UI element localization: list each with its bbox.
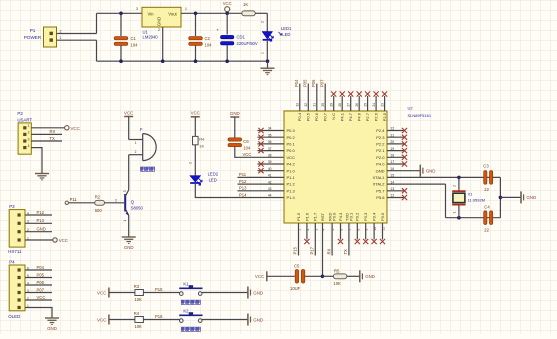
no-connect X pin 12	[402, 195, 407, 200]
power port GND (K1 row)	[248, 287, 263, 299]
svg-text:104: 104	[205, 43, 213, 48]
svg-text:C4: C4	[484, 204, 490, 209]
power port VCC (circle) at P2 pin1	[65, 126, 80, 131]
power port GND (pin16)	[420, 165, 435, 177]
switch K2 (push button)	[179, 308, 202, 322]
svg-text:28: 28	[338, 103, 342, 107]
pin 27 P4.7	[347, 103, 354, 121]
wire stub pin 29	[333, 96, 335, 111]
svg-text:VCC: VCC	[71, 126, 80, 131]
svg-text:2: 2	[188, 162, 192, 164]
wire R2 to Q base	[105, 202, 126, 204]
svg-text:P13: P13	[37, 218, 45, 223]
pin 40 P1.0	[268, 167, 296, 173]
label R4 1K	[199, 137, 205, 149]
svg-text:P07: P07	[37, 287, 45, 292]
svg-text:3: 3	[136, 7, 138, 11]
connector P3 HX711	[8, 204, 29, 254]
svg-text:R5: R5	[334, 269, 340, 274]
svg-text:GND: GND	[526, 195, 536, 200]
junction RST node	[321, 275, 325, 279]
wire stub bottom pin	[365, 223, 367, 240]
svg-text:22: 22	[484, 228, 489, 233]
wire stub pin 20	[387, 143, 404, 145]
no-connect X pin 40	[258, 168, 263, 173]
svg-text:33: 33	[296, 103, 300, 107]
junction CD1 bottom	[225, 59, 229, 63]
pin 16 GND	[376, 167, 395, 173]
pin 43 P1.3	[268, 187, 296, 193]
wire P3 pin4	[25, 214, 52, 216]
svg-text:RST: RST	[320, 212, 325, 221]
wire top rail to regulator Vin	[97, 12, 143, 14]
wire R3 to K1	[143, 292, 179, 294]
no-connect X pin 25	[365, 91, 370, 96]
wire R5 to GND	[347, 275, 360, 277]
junction crystal bottom	[457, 216, 461, 220]
wire pin 30 net P07	[324, 84, 326, 111]
wire P11 to MCU	[238, 176, 285, 178]
svg-text:10K: 10K	[333, 281, 341, 286]
svg-text:GND: GND	[253, 290, 263, 295]
svg-text:P0.5: P0.5	[306, 112, 311, 121]
wire Q emitter to ground	[128, 216, 130, 238]
wire GND to C6	[234, 117, 236, 138]
svg-text:VCC: VCC	[124, 110, 133, 115]
no-connect X pin 17	[402, 161, 407, 166]
no-connect X pin 37	[258, 148, 263, 153]
svg-text:1: 1	[123, 220, 127, 222]
label U1 LM2940	[143, 30, 159, 40]
junction VCC node	[225, 12, 229, 16]
pin 8 P3.2	[355, 212, 361, 231]
wire P3 pin3	[25, 222, 52, 224]
svg-text:P0.4: P0.4	[297, 112, 302, 121]
wire stub pin 22	[387, 130, 404, 132]
resistor R1 1K	[242, 11, 256, 16]
pin 22 P2.4	[376, 127, 394, 133]
svg-text:CD1: CD1	[237, 34, 246, 39]
capacitor C1	[114, 37, 128, 46]
svg-text:P5.7: P5.7	[376, 188, 385, 193]
wire stub bottom pin	[340, 223, 342, 240]
pin 4 RST	[320, 212, 326, 230]
wire to GND port	[500, 196, 521, 198]
connector P1 POWER	[24, 27, 62, 47]
svg-text:2: 2	[158, 28, 160, 32]
wire C1 bottom	[120, 46, 122, 62]
wire stub pin 39	[258, 163, 285, 165]
wire stub pin 19	[387, 150, 404, 152]
wire P4 net VCC	[25, 299, 52, 301]
pin 1 P1.5	[296, 212, 302, 231]
svg-text:GND: GND	[37, 227, 46, 232]
no-connect X bottom pin	[372, 239, 377, 244]
svg-text:10K: 10K	[134, 324, 142, 329]
no-connect X pin 29	[331, 91, 336, 96]
junction crystal top	[457, 176, 461, 180]
pin 35 P0.2	[268, 133, 296, 139]
wire C5 to RST node	[305, 275, 323, 277]
svg-text:1: 1	[135, 141, 137, 145]
pin 32 P0.5	[304, 103, 311, 121]
wire to ground	[267, 61, 269, 68]
svg-text:GND: GND	[376, 168, 385, 173]
svg-text:24: 24	[372, 103, 376, 107]
svg-text:VCC: VCC	[255, 274, 264, 279]
junction C1 bottom	[119, 59, 123, 63]
svg-text:1K: 1K	[243, 2, 248, 7]
no-connect X bottom pin	[338, 239, 343, 244]
junction ground rail end	[266, 59, 270, 63]
wire down to LED1 anode	[266, 13, 268, 31]
wire stub pin 18	[387, 156, 404, 158]
svg-text:P11: P11	[239, 172, 247, 177]
svg-text:500: 500	[95, 208, 103, 213]
pin 5 RXD\P3.0	[328, 212, 337, 231]
wire R4 to LED2	[194, 145, 196, 176]
pin 20 P2.2	[376, 140, 394, 146]
svg-text:1: 1	[260, 52, 264, 54]
wire C3/C4 right vertical	[499, 177, 501, 217]
svg-text:P07: P07	[320, 79, 325, 87]
label R2 500	[95, 194, 103, 213]
wire Vout rail	[181, 12, 242, 14]
svg-text:P1.6: P1.6	[304, 212, 309, 221]
svg-text:4: 4	[28, 144, 30, 148]
pin 30 P0.7	[321, 103, 328, 121]
svg-text:USART: USART	[17, 118, 32, 123]
svg-text:1K: 1K	[199, 144, 204, 149]
wire stub pin 34	[258, 130, 285, 132]
wire P11 to R2	[69, 202, 95, 204]
svg-text:LED2: LED2	[208, 171, 219, 176]
svg-text:VCC: VCC	[97, 290, 106, 295]
wire P1 pin2 to riser	[57, 33, 97, 35]
wire pin net RX	[331, 223, 333, 256]
svg-text:Vin: Vin	[148, 12, 155, 17]
power port VCC (circle)	[223, 1, 232, 13]
svg-text:29: 29	[330, 103, 334, 107]
svg-text:GND: GND	[157, 17, 162, 26]
pin 28 P4.1	[338, 103, 345, 121]
resistor R5 10K	[333, 274, 346, 279]
svg-text:P0.1: P0.1	[287, 142, 296, 147]
wire regulator GND pin to rail	[162, 27, 164, 61]
wire R1 to LED1	[255, 12, 267, 14]
wire stub pin 36	[258, 143, 285, 145]
svg-text:P0.7: P0.7	[323, 112, 328, 121]
wire pin 32 net P05	[307, 84, 309, 111]
wire pin net P15	[298, 223, 300, 256]
svg-text:C2: C2	[205, 36, 211, 41]
op-amp U2 MCU SLN89F5161 body	[284, 111, 387, 223]
pin 44 P1.4	[268, 194, 296, 200]
svg-text:P2: P2	[17, 111, 23, 116]
wire stub pin 40	[258, 170, 285, 172]
pin 33 P0.4	[296, 103, 303, 121]
resistor R4 10K	[135, 317, 144, 323]
no-connect X pin 13	[402, 188, 407, 193]
pin 18 P2.0	[376, 154, 394, 160]
wire bottom ground rail	[97, 60, 268, 62]
label C4 22	[484, 204, 490, 232]
power port VCC (reset)	[255, 271, 267, 281]
no-connect X pin 35	[258, 135, 263, 140]
label CD1 220UF/50V	[237, 34, 258, 46]
svg-text:P2.7: P2.7	[365, 112, 370, 121]
capacitor C4 22	[484, 211, 493, 225]
svg-text:2: 2	[28, 131, 30, 135]
svg-text:3: 3	[28, 137, 30, 141]
label C5 10UF	[290, 263, 301, 291]
capacitor CD1 220UF/50V	[216, 28, 234, 46]
svg-text:C3: C3	[483, 163, 489, 168]
buzzer F	[129, 127, 157, 160]
no-connect X pin 20	[402, 141, 407, 146]
svg-text:38: 38	[268, 154, 272, 158]
svg-text:TX: TX	[50, 136, 56, 141]
label buzzer 蜂鸣器	[141, 167, 155, 171]
pin 39 P4.2	[268, 160, 296, 166]
svg-text:P2.0: P2.0	[376, 155, 385, 160]
wire stub bottom pin	[356, 223, 358, 240]
svg-text:2: 2	[260, 21, 264, 23]
svg-text:OLED: OLED	[8, 314, 20, 319]
svg-text:P16: P16	[155, 314, 163, 319]
svg-text:P4.6: P4.6	[357, 112, 362, 121]
svg-text:2: 2	[135, 150, 137, 154]
no-connect X pin 36	[258, 141, 263, 146]
wire pin 33 net P04	[299, 84, 301, 111]
voltage regulator U1 LM2940	[136, 7, 187, 32]
pin 42 P1.2	[268, 180, 296, 186]
svg-text:+: +	[216, 28, 219, 33]
svg-text:GND: GND	[365, 274, 375, 279]
no-connect X pin 21	[402, 135, 407, 140]
pin 7 TXD\P3.1	[344, 212, 353, 231]
svg-text:P14: P14	[239, 192, 247, 197]
capacitor C6	[228, 138, 242, 147]
svg-text:P13: P13	[239, 186, 247, 191]
svg-text:RX: RX	[326, 248, 331, 254]
svg-text:32: 32	[304, 103, 308, 107]
svg-text:P4: P4	[9, 259, 15, 264]
pin 25 P2.7	[363, 103, 370, 121]
svg-text:10K: 10K	[134, 297, 142, 302]
svg-text:SLN89F5161: SLN89F5161	[408, 113, 432, 118]
wire P12 to MCU	[238, 183, 285, 185]
wire riser up to top rail	[96, 13, 98, 33]
connector P2 USART	[17, 111, 32, 154]
wire stub pin 13	[387, 190, 404, 192]
wire P4 net P05	[25, 277, 52, 279]
label U2 SLN89F5161	[408, 105, 432, 118]
svg-text:GND: GND	[47, 326, 57, 331]
power port VCC (K2 row)	[97, 315, 109, 325]
svg-text:GND: GND	[230, 111, 240, 116]
junction C2 top	[194, 12, 198, 16]
label C3 22	[483, 163, 489, 192]
label R4 10K	[134, 311, 142, 329]
junction regulator gnd	[161, 59, 165, 63]
pin 14 XTAL2	[373, 180, 395, 186]
svg-text:104: 104	[243, 146, 251, 151]
pin 23 P2.5	[380, 103, 387, 121]
pin 13 P5.7	[376, 187, 394, 193]
wire K2 to GND	[202, 319, 248, 321]
wire stub bottom pin	[373, 223, 375, 240]
pin 15 XTAL1	[373, 174, 395, 180]
svg-text:R4: R4	[134, 311, 140, 316]
LED D2 LED2	[190, 176, 202, 185]
svg-text:2: 2	[115, 198, 117, 202]
svg-text:11.0592M: 11.0592M	[468, 198, 486, 203]
resistor R4 1K (vertical)	[193, 136, 199, 144]
svg-text:P1.5: P1.5	[296, 212, 301, 221]
svg-text:P15: P15	[293, 246, 298, 254]
svg-text:N.C: N.C	[331, 113, 336, 120]
wire buzzer pin2 to Q collector	[128, 155, 130, 190]
svg-text:P17: P17	[310, 246, 315, 254]
pin 38 VCC	[268, 154, 295, 160]
wire P3 pin2	[25, 231, 52, 233]
svg-text:104: 104	[131, 43, 139, 48]
wire CD1 bottom	[226, 45, 228, 61]
junction C2 bottom	[194, 59, 198, 63]
power port VCC (buzzer)	[124, 110, 133, 116]
connector P4 OLED	[8, 259, 29, 318]
pin 12 P5.6	[376, 194, 394, 200]
label C1 104	[131, 36, 139, 48]
svg-text:P1.1: P1.1	[287, 175, 296, 180]
svg-text:P3.4: P3.4	[372, 212, 377, 221]
pin 34 P0.3	[268, 127, 296, 133]
pin 26 P4.6	[355, 103, 362, 121]
svg-text:1: 1	[452, 211, 456, 213]
wire pin14 XTAL2	[387, 183, 446, 185]
svg-text:P05: P05	[37, 272, 45, 277]
wire VCC to R4	[109, 319, 135, 321]
svg-text:P4.3: P4.3	[338, 212, 343, 221]
wire C2 bottom	[195, 46, 197, 62]
wire P2 pin1 to VCC	[31, 127, 64, 129]
power port VCC (K1 row)	[97, 288, 109, 298]
no-connect X pin 18	[402, 155, 407, 160]
svg-text:25: 25	[363, 103, 367, 107]
svg-text:P3.5: P3.5	[380, 212, 385, 221]
svg-text:P04: P04	[37, 265, 45, 270]
wire stub pin 25	[367, 96, 369, 111]
svg-text:1: 1	[185, 7, 187, 11]
switch K1 (push button)	[179, 281, 202, 295]
no-connect X pin 27	[348, 91, 353, 96]
label C2 104	[205, 36, 213, 48]
no-connect X bottom pin	[363, 239, 368, 244]
svg-text:22: 22	[484, 187, 489, 192]
svg-text:1: 1	[28, 124, 30, 128]
wire stub pin 12	[387, 197, 404, 199]
svg-text:VCC: VCC	[191, 111, 200, 116]
no-connect X pin 19	[402, 148, 407, 153]
svg-text:P2.6: P2.6	[374, 112, 379, 121]
pin 3 P1.7	[313, 212, 319, 231]
wire stub pin 26	[358, 96, 360, 111]
wire P2 pin2 RX	[31, 133, 62, 135]
svg-text:1: 1	[60, 36, 62, 40]
svg-text:P4.0: P4.0	[376, 162, 385, 167]
capacitor C2	[189, 37, 203, 46]
svg-text:VCC: VCC	[287, 155, 296, 160]
svg-text:P2.4: P2.4	[376, 128, 385, 133]
pin 37 P0.0	[268, 147, 296, 153]
power port GND (K2 row)	[248, 314, 263, 326]
pin 11 P3.5	[380, 212, 386, 231]
wire stub pin 17	[387, 163, 404, 165]
svg-text:U2: U2	[408, 105, 414, 110]
svg-text:POWER: POWER	[24, 35, 42, 40]
wire CD1 top	[226, 13, 228, 34]
svg-text:P2.5: P2.5	[382, 112, 387, 121]
no-connect X bottom pin	[355, 239, 360, 244]
svg-text:P1.0: P1.0	[287, 168, 296, 173]
svg-text:P11: P11	[70, 197, 78, 202]
wire stub pin 27	[350, 96, 352, 111]
svg-text:GND: GND	[426, 169, 436, 174]
svg-text:P1.3: P1.3	[287, 188, 296, 193]
label R3 10K	[134, 284, 142, 302]
no-connect X pin 39	[258, 161, 263, 166]
svg-text:P1.2: P1.2	[287, 182, 296, 187]
wire XTAL2 node bottom	[446, 217, 501, 219]
wire P4 net P06	[25, 284, 52, 286]
node P11 (open circle)	[65, 201, 68, 204]
svg-text:44: 44	[268, 194, 272, 198]
pin 19 P2.1	[376, 147, 394, 153]
wire XTAL1 node top	[387, 176, 500, 178]
wire VCC to R4	[194, 117, 196, 137]
pin 10 P3.4	[372, 212, 378, 231]
capacitor C5 10UF	[295, 270, 305, 284]
capacitor C3 22	[484, 171, 493, 185]
svg-text:VCC: VCC	[37, 295, 46, 300]
pin 31 P0.6	[313, 103, 320, 121]
wire pin net TX	[348, 223, 350, 256]
wire C1 top	[120, 13, 122, 36]
no-connect X pin 22	[402, 128, 407, 133]
pin 21 P2.3	[376, 133, 394, 139]
pin 29 N.C	[330, 103, 337, 120]
svg-text:LED: LED	[209, 177, 217, 182]
svg-text:P2.2: P2.2	[376, 142, 385, 147]
power port GND (reset)	[360, 270, 375, 282]
wire stub pin 23	[384, 96, 386, 111]
wire RST node to R5	[323, 275, 334, 277]
svg-text:31: 31	[313, 103, 317, 107]
svg-text:P3: P3	[9, 204, 15, 209]
svg-text:P3.0: P3.0	[332, 212, 337, 221]
wire LED1 cathode down	[266, 40, 268, 61]
svg-text:GND: GND	[124, 245, 134, 250]
wire P4 pin1 to ground	[25, 308, 52, 319]
pin 41 P1.1	[268, 174, 296, 180]
svg-text:27: 27	[347, 103, 351, 107]
transistor Q S8050	[123, 190, 143, 222]
svg-text:P06: P06	[311, 79, 316, 87]
wire K1 to GND	[202, 292, 248, 294]
svg-text:P12: P12	[239, 179, 247, 184]
svg-text:10UF: 10UF	[290, 286, 301, 291]
